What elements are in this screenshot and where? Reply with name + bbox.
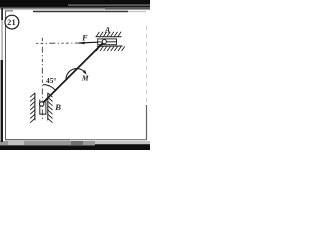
scan strip left	[1, 8, 3, 20]
frame bottom border	[5, 139, 70, 141]
moment M arc	[66, 69, 86, 80]
frame top border	[5, 10, 13, 12]
frame left border	[5, 11, 7, 140]
svg-text:F: F	[81, 33, 88, 42]
bar AB	[42, 42, 105, 104]
support at A: upper guide hatching	[96, 32, 121, 37]
moment M arrowhead	[83, 70, 87, 75]
svg-text:45°: 45°	[46, 76, 56, 85]
bar tip into box	[100, 42, 105, 47]
frame right border	[146, 26, 148, 112]
pin at B	[40, 102, 44, 106]
force F line	[79, 42, 104, 43]
support at B: right wall line	[47, 93, 49, 121]
line of action of F (dash-dot)	[36, 42, 79, 44]
centerline inside box	[98, 41, 117, 43]
force F arrowhead	[78, 42, 85, 45]
svg-text:B: B	[54, 102, 61, 112]
support at A: lower guide hatching	[96, 46, 124, 51]
scan bar bottom	[0, 141, 95, 145]
angle 45 arc	[43, 85, 56, 92]
slider box at A	[98, 39, 117, 45]
support at B: left wall line	[34, 93, 36, 121]
svg-text:M: M	[81, 73, 89, 82]
support at A: upper guide line	[96, 36, 122, 38]
guide centerline at B (dash-dot vertical)	[41, 38, 43, 120]
pin at A	[102, 40, 106, 44]
problem number badge 21	[5, 15, 19, 29]
support at B: left wall hatching	[30, 93, 35, 123]
svg-text:21: 21	[7, 18, 16, 27]
support at B: right wall hatching	[48, 93, 53, 123]
support at A: lower guide line	[97, 45, 123, 47]
slider box at B	[40, 100, 46, 115]
